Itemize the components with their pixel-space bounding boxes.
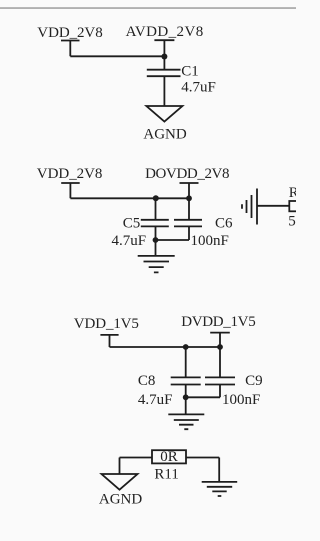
svg-text:4.7uF: 4.7uF (112, 233, 147, 249)
svg-text:4.7uF: 4.7uF (138, 392, 173, 408)
svg-text:C9: C9 (245, 373, 263, 389)
svg-text:R11: R11 (154, 466, 178, 482)
svg-text:AGND: AGND (143, 127, 186, 143)
svg-text:DOVDD_2V8: DOVDD_2V8 (145, 166, 229, 182)
svg-text:100nF: 100nF (191, 233, 229, 249)
svg-text:C1: C1 (181, 64, 199, 80)
svg-text:5: 5 (288, 214, 296, 230)
svg-text:0R: 0R (160, 449, 178, 465)
svg-text:C8: C8 (138, 373, 156, 389)
svg-text:VDD_2V8: VDD_2V8 (37, 25, 102, 41)
svg-text:VDD_1V5: VDD_1V5 (74, 316, 139, 332)
svg-text:C5: C5 (123, 215, 141, 231)
svg-text:VDD_2V8: VDD_2V8 (37, 166, 103, 182)
svg-text:100nF: 100nF (222, 392, 260, 408)
svg-text:DVDD_1V5: DVDD_1V5 (181, 314, 256, 330)
svg-text:4.7uF: 4.7uF (181, 80, 216, 96)
svg-text:C6: C6 (215, 215, 233, 231)
svg-text:R: R (289, 185, 296, 201)
svg-text:AVDD_2V8: AVDD_2V8 (126, 24, 204, 40)
svg-text:AGND: AGND (99, 492, 142, 508)
